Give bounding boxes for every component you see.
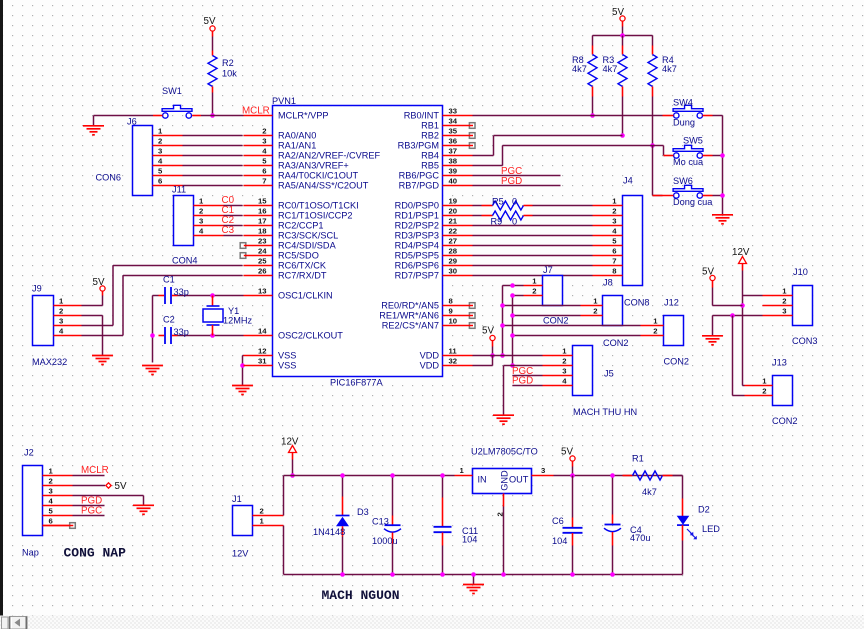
svg-text:CON4: CON4	[172, 256, 198, 266]
resistor R9 0	[473, 211, 593, 220]
svg-text:R5: R5	[492, 197, 504, 207]
svg-text:R2: R2	[222, 58, 234, 68]
svg-text:RB5: RB5	[421, 161, 439, 171]
svg-text:13: 13	[258, 287, 267, 296]
capacitor C13 1000u	[384, 516, 401, 544]
svg-text:5: 5	[49, 507, 54, 516]
connector J13	[745, 376, 793, 406]
svg-text:RD6/PSP6: RD6/PSP6	[395, 261, 439, 271]
wire bus B (J7.2/J8.2/J12.2/GND)	[513, 296, 641, 366]
svg-text:J13: J13	[772, 358, 787, 368]
wire RB4 riser	[473, 136, 623, 156]
label R3	[603, 55, 615, 65]
net label PGC (J5)	[512, 366, 533, 377]
svg-text:9: 9	[449, 307, 453, 316]
label J1	[232, 494, 242, 504]
wire R2 to MCLR node	[212, 93, 214, 116]
wire switches to ground	[713, 116, 723, 206]
svg-text:C2: C2	[163, 315, 175, 325]
wire 5V to R2	[212, 37, 214, 51]
svg-text:C3: C3	[222, 225, 235, 236]
svg-text:3: 3	[262, 137, 266, 146]
label C2 value 33p	[174, 327, 189, 337]
svg-text:RB3/PGM: RB3/PGM	[398, 141, 439, 151]
svg-text:J9: J9	[32, 284, 42, 294]
svg-text:5V: 5V	[93, 277, 105, 288]
svg-text:SW6: SW6	[673, 176, 693, 186]
svg-text:RE0/RD*/AN5: RE0/RD*/AN5	[381, 301, 439, 311]
junction VDD	[490, 353, 495, 358]
svg-text:RA5/AN4/SS*/C2OUT: RA5/AN4/SS*/C2OUT	[278, 181, 369, 191]
wire RB5 to SW5	[653, 146, 665, 156]
junction OSC2/Y1	[210, 333, 215, 338]
switch SW1	[153, 105, 201, 118]
svg-text:26: 26	[258, 267, 267, 276]
label J4 value CON8	[624, 298, 650, 308]
junction R4/RB5	[650, 143, 655, 148]
svg-text:PVN1: PVN1	[272, 96, 296, 106]
power symbol 12V (J1)	[281, 437, 299, 460]
caption CONG NAP	[64, 546, 127, 561]
svg-text:J4: J4	[623, 176, 633, 186]
wire 12V to bus	[292, 460, 294, 476]
svg-text:R1: R1	[632, 454, 644, 464]
svg-text:RA1/AN1: RA1/AN1	[278, 141, 316, 151]
label R4	[662, 55, 674, 65]
svg-text:GND: GND	[500, 470, 510, 491]
svg-text:24: 24	[258, 247, 267, 256]
label J13	[772, 358, 787, 368]
power symbol 5V (C6)	[561, 447, 575, 467]
wire J2.2 5V	[73, 485, 106, 487]
label J9	[32, 284, 42, 294]
svg-text:37: 37	[449, 147, 458, 156]
IC right pin names	[379, 111, 439, 371]
power symbol 5V (J2)	[106, 481, 127, 492]
svg-text:D3: D3	[357, 507, 369, 517]
label SW5	[683, 136, 703, 146]
wire RB5 riser	[473, 146, 653, 166]
svg-text:SW4: SW4	[673, 98, 693, 108]
svg-text:25: 25	[258, 257, 267, 266]
junction B-335	[510, 333, 515, 338]
svg-text:RB1: RB1	[421, 121, 439, 131]
connector J8	[581, 296, 623, 326]
svg-text:104: 104	[552, 536, 567, 546]
svg-text:7: 7	[612, 257, 616, 266]
label C6 value 104	[552, 536, 567, 546]
svg-text:RE2/CS*/AN7: RE2/CS*/AN7	[382, 321, 439, 331]
IC left pin names	[278, 111, 380, 371]
junction OSC1/Y1	[210, 293, 215, 298]
label IC ref PVN1	[272, 96, 296, 106]
net label PGC (RB6)	[501, 166, 522, 177]
svg-text:40: 40	[449, 177, 458, 186]
svg-text:1: 1	[158, 127, 163, 136]
label C13	[372, 517, 389, 527]
svg-text:3: 3	[158, 147, 162, 156]
label J7 (above row)	[543, 265, 553, 275]
svg-text:27: 27	[449, 237, 458, 246]
svg-text:3: 3	[782, 307, 786, 316]
ground (J10)	[702, 336, 723, 345]
ground (SW1)	[83, 116, 104, 135]
svg-text:14: 14	[258, 327, 267, 336]
svg-text:5V: 5V	[115, 481, 127, 492]
net label MCLR	[242, 106, 270, 117]
wire C6 bottom	[572, 546, 574, 575]
wires RD2-RD7 to J4	[473, 226, 593, 276]
label R8	[572, 55, 584, 65]
connector J1	[233, 506, 284, 536]
label R5	[492, 197, 504, 207]
svg-text:RC7/RX/DT: RC7/RX/DT	[278, 271, 327, 281]
svg-text:J5: J5	[604, 369, 614, 379]
label C11 value 104	[462, 535, 477, 545]
wires J11 to IC RC0-RC3	[224, 206, 243, 236]
svg-text:3: 3	[199, 217, 203, 226]
svg-text:Nap: Nap	[22, 548, 39, 558]
svg-text:12V: 12V	[232, 549, 249, 559]
svg-text:8: 8	[449, 297, 454, 306]
label J12 value CON2	[664, 357, 690, 367]
ground (switches)	[712, 206, 733, 224]
wire J2.3 to ground	[73, 496, 144, 506]
net label C2	[222, 215, 235, 226]
label R8 value 4k7	[572, 64, 587, 74]
junction D3 top	[340, 473, 345, 478]
label U2 ref U2LM7805C/TO	[471, 447, 538, 457]
wire C4 bottom	[612, 546, 614, 575]
svg-text:3: 3	[562, 367, 566, 376]
label J11	[172, 185, 186, 195]
svg-text:18: 18	[258, 227, 267, 236]
wire RB7 PGD stub	[473, 185, 561, 187]
svg-text:RC6/TX/CK: RC6/TX/CK	[278, 261, 327, 271]
label J8 value CON2	[603, 338, 629, 348]
junction C4 bottom	[610, 572, 615, 577]
svg-text:Dung: Dung	[673, 118, 695, 128]
wire D3 top	[342, 476, 344, 497]
wire 7805 out bus	[554, 475, 683, 477]
svg-text:12: 12	[258, 347, 267, 356]
junction B-365	[510, 363, 515, 368]
svg-text:RD3/PSP3: RD3/PSP3	[395, 231, 439, 241]
label SW1	[162, 86, 182, 96]
svg-text:Y1: Y1	[228, 306, 239, 316]
svg-text:4k7: 4k7	[603, 64, 618, 74]
wire gnd bus ground tap	[473, 575, 475, 585]
label J7 value CON2	[543, 316, 569, 326]
svg-text:36: 36	[449, 137, 458, 146]
capacitor C6 104	[563, 476, 583, 546]
label U2 pin number 3	[541, 466, 545, 475]
svg-text:1: 1	[260, 517, 265, 526]
svg-text:1000u: 1000u	[372, 536, 398, 546]
wire J1.1 to gnd bus	[284, 526, 683, 575]
power symbol 5V (VDD)	[482, 326, 495, 347]
label C4 value 470u	[630, 533, 650, 543]
crystal Y1	[203, 296, 223, 336]
label D2 value LED	[702, 524, 720, 534]
svg-text:1: 1	[532, 277, 537, 286]
wire D3 bottom	[342, 537, 344, 575]
svg-text:2: 2	[262, 127, 266, 136]
svg-text:RC1/T1OSI/CCP2: RC1/T1OSI/CCP2	[278, 211, 353, 221]
svg-text:C13: C13	[372, 517, 389, 527]
svg-text:RC0/T1OSO/T1CKI: RC0/T1OSO/T1CKI	[278, 201, 359, 211]
power symbol 5V (pull-ups)	[612, 7, 625, 27]
IC left pin stubs	[240, 116, 272, 366]
net label C0	[222, 195, 235, 206]
wire OSC1 row	[153, 296, 244, 335]
svg-text:VDD: VDD	[420, 361, 440, 371]
label J10 value CON3	[792, 336, 818, 346]
wire C13 top	[392, 476, 394, 516]
svg-text:20: 20	[449, 207, 458, 216]
svg-text:1: 1	[762, 377, 767, 386]
svg-text:J7: J7	[543, 265, 553, 275]
label R2 value 10k	[222, 58, 237, 79]
svg-text:VDD: VDD	[420, 351, 440, 361]
svg-text:4: 4	[262, 147, 267, 156]
svg-text:34: 34	[449, 117, 458, 126]
wires J6 to IC RA0-RA5	[183, 136, 243, 186]
svg-text:1: 1	[59, 297, 64, 306]
connector J2	[23, 466, 76, 536]
svg-text:J2: J2	[24, 448, 34, 458]
wire 5V to row305	[713, 288, 743, 306]
label R1 value 4k7	[642, 487, 657, 497]
label R3 value 4k7	[603, 64, 618, 74]
svg-text:31: 31	[258, 357, 267, 366]
power symbol 5V (J9)	[93, 277, 106, 296]
svg-text:12MHz: 12MHz	[223, 316, 253, 326]
svg-text:10k: 10k	[222, 69, 237, 79]
label C2	[163, 315, 175, 325]
svg-text:1: 1	[653, 317, 658, 326]
wire 12V to J13.1	[743, 385, 745, 387]
svg-text:RB4: RB4	[421, 151, 439, 161]
junction C4 top	[610, 473, 615, 478]
net label C3	[222, 225, 235, 236]
junction U2 gnd	[501, 572, 506, 577]
svg-text:12V: 12V	[281, 437, 299, 448]
svg-text:J8: J8	[603, 278, 613, 288]
junction SW6/gnd line	[720, 193, 725, 198]
svg-text:CON2: CON2	[772, 416, 798, 426]
svg-text:MCLR: MCLR	[81, 465, 109, 476]
svg-text:RB0/INT: RB0/INT	[404, 111, 440, 121]
junction C11 top	[440, 473, 445, 478]
ground (J9)	[92, 356, 113, 365]
svg-text:39: 39	[449, 167, 458, 176]
resistor R3 4k7	[618, 36, 627, 97]
connector J6	[133, 126, 183, 196]
svg-text:5V: 5V	[561, 447, 573, 458]
wire C11 top	[442, 476, 444, 498]
svg-text:33p: 33p	[174, 327, 189, 337]
wire VDD pin32 riser	[473, 356, 493, 366]
svg-text:C6: C6	[552, 516, 564, 526]
svg-text:3: 3	[59, 317, 63, 326]
net label PGC (J2)	[81, 506, 102, 517]
wire VDD row to J5.1	[473, 355, 543, 357]
label Y1 value 12MHz	[223, 316, 253, 326]
net label PGD (RB7)	[501, 176, 522, 187]
regulator U2 LM7805C/TO	[455, 469, 554, 507]
power symbol 5V (R2 pull-up supply)	[204, 16, 216, 37]
svg-text:RD7/PSP7: RD7/PSP7	[395, 271, 439, 281]
svg-text:1: 1	[612, 197, 617, 206]
svg-text:1: 1	[460, 466, 465, 475]
junction R3/RB4	[620, 133, 625, 138]
label C1 value 33p	[174, 287, 189, 297]
label D3	[357, 507, 369, 517]
svg-text:35: 35	[449, 127, 458, 136]
svg-text:RC4/SDI/SDA: RC4/SDI/SDA	[278, 241, 337, 251]
svg-text:CON8: CON8	[624, 298, 650, 308]
svg-text:0: 0	[512, 197, 517, 207]
label J12	[664, 298, 679, 308]
junction A-355	[500, 353, 505, 358]
junction R8/RB0	[590, 113, 595, 118]
junction 12V/row305	[740, 303, 745, 308]
svg-text:6: 6	[262, 167, 266, 176]
label J9 value MAX232	[32, 357, 67, 367]
power symbol 12V (J10)	[732, 247, 750, 271]
label C1	[163, 275, 175, 285]
net label PGD (J5)	[512, 376, 533, 387]
label C11	[462, 526, 478, 536]
svg-text:4: 4	[158, 157, 163, 166]
caption MACH THU HN	[573, 407, 637, 417]
wire 12V to J10.1	[743, 295, 763, 297]
label J8 (above row)	[603, 278, 613, 288]
svg-text:LED: LED	[702, 524, 720, 534]
svg-text:3: 3	[612, 217, 616, 226]
svg-text:RC3/SCK/SCL: RC3/SCK/SCL	[278, 231, 338, 241]
svg-text:CON6: CON6	[96, 173, 122, 183]
svg-text:RD5/PSP5: RD5/PSP5	[395, 251, 439, 261]
wire RB0 to SW4	[473, 115, 663, 117]
switch SW5	[664, 145, 713, 158]
svg-text:4k7: 4k7	[662, 64, 677, 74]
junction C11 bottom	[440, 572, 445, 577]
svg-text:2: 2	[762, 387, 766, 396]
label J2 value Nap	[22, 548, 39, 558]
wire J13.2 riser	[733, 316, 745, 396]
net label PGD (J2)	[81, 496, 102, 507]
svg-text:OSC2/CLKOUT: OSC2/CLKOUT	[278, 331, 343, 341]
wire PGC to J5.3	[513, 375, 543, 377]
svg-text:J6: J6	[127, 117, 137, 127]
wire J9 pin4 to IC RC7	[82, 276, 243, 336]
svg-text:RA2/AN2/VREF-/CVREF: RA2/AN2/VREF-/CVREF	[278, 151, 380, 161]
svg-text:5: 5	[612, 237, 617, 246]
svg-text:VSS: VSS	[278, 361, 296, 371]
junction VSS	[240, 363, 245, 368]
connector J4	[593, 196, 643, 286]
svg-text:16: 16	[258, 207, 267, 216]
svg-text:CON2: CON2	[543, 316, 569, 326]
resistor R5 0	[473, 201, 593, 210]
connector J12	[641, 316, 684, 346]
label C13 value 1000u	[372, 536, 398, 546]
svg-text:33p: 33p	[174, 287, 189, 297]
wire J1.2 to +12 bus	[284, 476, 455, 516]
svg-text:5V: 5V	[204, 16, 216, 27]
wire R4 to RB5 net	[652, 97, 654, 146]
svg-text:J11: J11	[172, 185, 186, 195]
ground (supply)	[463, 585, 484, 594]
label C6	[552, 516, 564, 526]
svg-text:Mo cua: Mo cua	[673, 157, 704, 167]
ground (J2)	[133, 505, 154, 514]
wire R1 to LED	[673, 476, 683, 499]
wire R8 to RB0 row	[592, 97, 594, 116]
capacitor C11 104	[434, 498, 452, 546]
junction 5V out	[570, 473, 575, 478]
svg-text:4k7: 4k7	[572, 64, 587, 74]
wire 5V pull-up bus	[593, 27, 653, 36]
svg-text:4k7: 4k7	[642, 487, 657, 497]
wire RB6 PGC stub	[473, 175, 561, 177]
capacitor C2 33p	[159, 327, 178, 344]
svg-text:RA0/AN0: RA0/AN0	[278, 131, 316, 141]
svg-text:6: 6	[158, 177, 162, 186]
junction 5V bus	[620, 33, 625, 38]
svg-text:38: 38	[449, 157, 458, 166]
label SW4 Dung	[673, 118, 695, 128]
label IC value PIC16F877A	[330, 378, 383, 388]
junction on J7.1 row	[510, 283, 515, 288]
svg-text:6: 6	[49, 517, 53, 526]
label J4	[623, 176, 633, 186]
svg-text:28: 28	[449, 247, 458, 256]
svg-text:5V: 5V	[612, 7, 624, 18]
junction 12V bus	[290, 473, 295, 478]
wire SW1 to ground	[94, 115, 154, 117]
svg-text:J10: J10	[793, 267, 808, 277]
svg-text:12V: 12V	[732, 247, 750, 258]
svg-text:15: 15	[258, 197, 267, 206]
svg-text:4: 4	[59, 327, 64, 336]
label J13 value CON2	[772, 416, 798, 426]
diode D3 1N4148	[336, 497, 350, 537]
svg-text:RD4/PSP4: RD4/PSP4	[395, 241, 439, 251]
svg-text:RB6/PGC: RB6/PGC	[399, 171, 440, 181]
label J6 value CON6	[96, 173, 122, 183]
svg-text:11: 11	[449, 347, 458, 356]
svg-text:4: 4	[199, 227, 204, 236]
svg-text:PGC: PGC	[81, 506, 102, 517]
label D2	[698, 505, 710, 515]
svg-text:OUT: OUT	[509, 475, 529, 485]
svg-text:32: 32	[449, 357, 458, 366]
svg-text:2: 2	[593, 307, 597, 316]
svg-text:2: 2	[653, 327, 657, 336]
svg-text:RB2: RB2	[421, 131, 439, 141]
capacitor C1 33p	[159, 287, 178, 304]
label U2 pin number 2	[496, 512, 505, 516]
wire 12V vertical	[742, 271, 744, 386]
svg-text:SW5: SW5	[683, 136, 703, 146]
svg-text:30: 30	[449, 267, 458, 276]
wire J2.1 MCLR	[73, 475, 105, 477]
caption MACH NGUON	[322, 588, 400, 603]
switch SW6	[653, 185, 713, 198]
